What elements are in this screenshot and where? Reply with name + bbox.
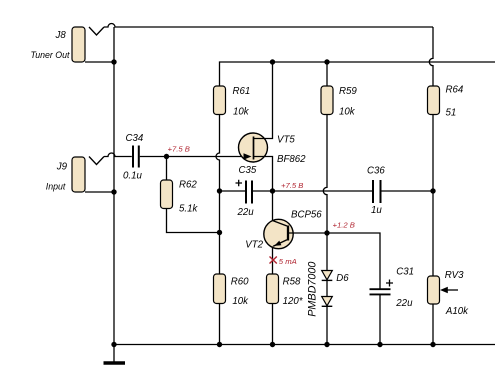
svg-text:Tuner Out: Tuner Out [31,50,71,60]
svg-text:D6: D6 [336,273,349,284]
connector J8 body [72,27,85,62]
wire R59 bottom with hop over +7.5 row [323,115,327,234]
wire +7.5 row middle [253,190,372,192]
transistor VT2 circle [264,219,293,248]
wire top rail from J8 tip with hop over ground bus [104,24,433,28]
connector J9 body [72,157,85,192]
node J9 sleeve junction [111,189,116,194]
svg-text:BCP56: BCP56 [291,209,322,220]
transistor VT2 emitter arrowhead [274,241,281,246]
svg-text:+1.2 B: +1.2 B [333,220,355,229]
capacitor C34 plates [133,146,139,168]
wire VT2 emitter down [272,246,274,274]
transistor VT5 source lead [254,157,273,192]
transistor VT5 drain lead [254,62,273,139]
wire C31 bottom [379,295,381,345]
svg-text:A10k: A10k [445,306,469,317]
resistor R64 body [428,86,440,115]
svg-text:51: 51 [446,107,457,118]
potentiometer RV3 body [428,276,440,304]
svg-text:VT5: VT5 [277,134,295,145]
svg-text:R61: R61 [233,86,251,97]
svg-text:R64: R64 [446,85,464,96]
capacitor C36 plates [373,180,381,203]
wire VT2 base row [289,233,380,289]
svg-text:+7.5 B: +7.5 B [168,145,190,154]
ground symbol [113,345,115,362]
svg-text:BF862: BF862 [277,154,306,165]
wire J9 sleeve to ground bus [85,191,114,193]
diode D6 middle wire [326,280,328,296]
resistor R60 body [214,274,226,304]
svg-text:10k: 10k [233,106,250,117]
transistor VT2 collector line [273,221,287,226]
resistor R59 body [321,86,333,115]
transistor VT5 gate arrowhead [244,153,252,159]
svg-text:22u: 22u [237,207,255,218]
svg-text:22u: 22u [395,298,413,309]
transistor VT5 circle [239,133,268,162]
wire +7.5 row left [220,190,246,192]
wire R64 top drop with hop over supply rail [429,27,433,86]
node VT5 source junction [270,188,275,193]
svg-text:J9: J9 [56,162,68,173]
wire RV3 top [432,191,434,276]
resistor R59 lead top [326,62,328,86]
svg-text:C36: C36 [367,166,385,177]
diode D6 top wire [326,233,328,271]
capacitor C35 plates [246,181,252,204]
svg-text:Input: Input [46,182,66,192]
node base junction [324,230,329,235]
svg-text:1u: 1u [371,205,382,216]
svg-text:J8: J8 [55,30,67,41]
resistor R58 body [267,274,279,304]
wire R64 bottom [432,115,434,192]
resistor R62 body [161,180,173,209]
svg-text:R58: R58 [283,277,301,288]
svg-text:+7.5 B: +7.5 B [281,181,303,190]
connector J9 tip contact [89,157,104,165]
capacitor C31 plates [370,289,391,294]
svg-text:R62: R62 [179,180,197,191]
ground rail [114,344,495,346]
wire R61 bottom bus with hop over input row [216,115,220,275]
wire +7.5 row right [382,190,434,192]
svg-text:C34: C34 [126,133,144,144]
svg-text:R59: R59 [339,86,357,97]
wire input row from J9 tip with hop over ground bus [104,153,132,157]
node J8 sleeve junction [111,59,116,64]
resistor R61 body [214,86,226,115]
connector J8 tip contact [89,27,104,35]
capacitor C35 polarity plus [236,180,243,186]
current marker cross [270,257,277,264]
node R64 bottom junction [430,188,435,193]
wire J8 sleeve to ground bus [85,61,114,63]
resistor R62 leads [167,157,220,233]
diode D6 bottom wire [326,306,328,344]
svg-text:VT2: VT2 [245,240,263,251]
transistor VT2 emitter line [273,240,287,247]
node C35 left junction [217,188,222,193]
diode D6 first diode [322,271,333,280]
transistor VT5 channel [253,137,255,160]
svg-text:0.1u: 0.1u [123,171,142,182]
wire R60 to ground rail [219,304,221,345]
svg-text:PMBD7000: PMBD7000 [307,262,319,317]
svg-text:C35: C35 [239,165,257,176]
svg-text:5 mA: 5 mA [279,257,297,266]
diode D6 second diode [322,297,333,306]
svg-text:RV3: RV3 [445,270,464,281]
wire RV3 bottom [432,304,434,345]
transistor VT2 base bar [287,226,289,241]
potentiometer RV3 wiper arrow [440,287,448,293]
wire C34 to gate node [140,156,250,158]
svg-text:10k: 10k [232,296,249,307]
wire R58 to ground rail [272,304,274,345]
supply rail [220,62,495,86]
svg-text:5.1k: 5.1k [179,204,198,215]
node VT5 drain junction on rail [270,59,275,64]
node gate junction [164,154,169,159]
ground bus vertical [113,27,115,345]
svg-text:C31: C31 [396,267,414,278]
node ground rail junctions [111,342,116,347]
node R59 top junction [324,59,329,64]
svg-text:10k: 10k [339,106,356,117]
svg-text:120*: 120* [283,296,304,307]
node R62 return junction [217,230,222,235]
svg-text:R60: R60 [231,277,249,288]
capacitor C31 polarity plus [386,280,393,287]
wire VT2 collector [272,191,274,221]
